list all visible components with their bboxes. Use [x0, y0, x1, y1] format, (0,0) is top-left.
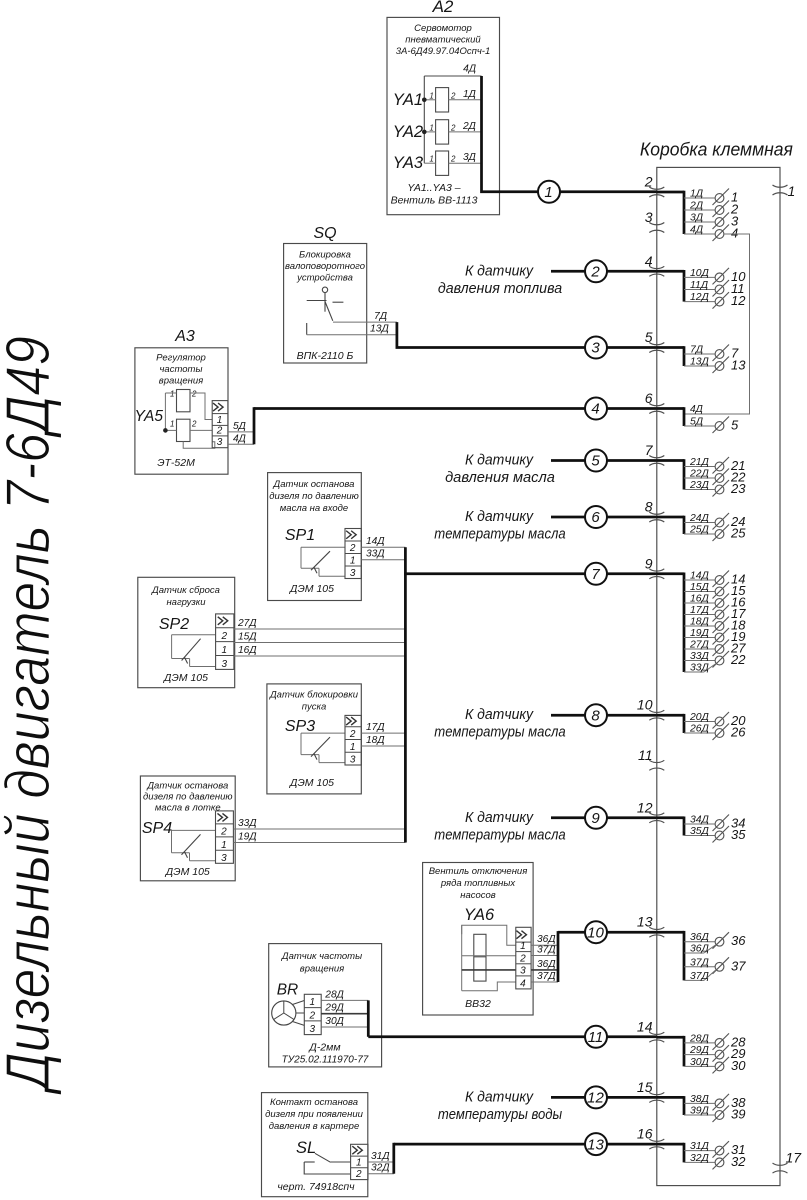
- svg-text:16Д: 16Д: [690, 594, 710, 605]
- wire: cable 3 trunk at gland 5: [657, 346, 684, 366]
- svg-text:пуска: пуска: [302, 702, 327, 713]
- svg-text:Датчик частоты: Датчик частоты: [281, 951, 362, 962]
- svg-text:1: 1: [221, 840, 227, 851]
- wire 27Д from SP2: [234, 618, 406, 629]
- junction at YA2: [422, 130, 427, 135]
- svg-text:37Д: 37Д: [690, 957, 710, 968]
- connector X-SL: [351, 1144, 368, 1180]
- svg-text:1: 1: [429, 91, 433, 100]
- svg-text:К датчику: К датчику: [465, 1088, 534, 1105]
- block SP1 designator: [285, 527, 315, 544]
- cable gland 10: [637, 697, 664, 721]
- terminal box outline: [657, 167, 780, 1185]
- connector X-SP4: [216, 811, 234, 864]
- svg-text:12Д: 12Д: [690, 292, 710, 303]
- svg-text:3: 3: [221, 659, 227, 670]
- svg-text:1: 1: [309, 997, 315, 1008]
- block BR type: [282, 1042, 369, 1066]
- svg-text:28Д: 28Д: [324, 989, 344, 1000]
- connector X-A3: [212, 401, 228, 449]
- svg-text:SP2: SP2: [159, 616, 189, 633]
- block SQ description: [285, 250, 365, 284]
- node 4: [585, 398, 607, 420]
- svg-text:2: 2: [191, 420, 197, 429]
- svg-text:температуры масла: температуры масла: [434, 526, 565, 543]
- block YA6 type: [465, 998, 491, 1010]
- svg-text:SP1: SP1: [285, 527, 315, 544]
- wire 24Д to terminal 24: [684, 513, 745, 530]
- svg-text:2: 2: [355, 1169, 362, 1180]
- wire 14Д from SP1: [361, 536, 405, 547]
- block SP4 description: [143, 781, 233, 814]
- wire: cable 1 trunk at gland 2: [657, 191, 684, 234]
- wire 22Д to terminal 22: [684, 469, 746, 486]
- cable gland 2: [644, 174, 665, 198]
- svg-text:32: 32: [731, 1154, 746, 1169]
- svg-text:ВВ32: ВВ32: [465, 998, 491, 1010]
- terminal box label: Коробка клеммная: [640, 140, 793, 160]
- svg-text:Вентиль ВВ-1113: Вентиль ВВ-1113: [391, 195, 478, 207]
- svg-text:36: 36: [731, 933, 746, 948]
- svg-text:18Д: 18Д: [690, 617, 710, 628]
- svg-text:13Д: 13Д: [370, 324, 390, 335]
- coil YA5a: [165, 390, 212, 420]
- svg-text:3: 3: [645, 209, 653, 225]
- svg-text:32Д: 32Д: [371, 1163, 390, 1174]
- svg-text:36Д: 36Д: [690, 932, 710, 943]
- node 10: [585, 921, 607, 943]
- svg-text:температуры масла: температуры масла: [434, 724, 565, 741]
- svg-text:25Д: 25Д: [689, 525, 710, 536]
- label YA5: [135, 408, 164, 425]
- svg-text:Вентиль отключения: Вентиль отключения: [429, 866, 528, 877]
- wire 32Д to terminal 32: [684, 1153, 746, 1170]
- svg-text:24Д: 24Д: [689, 513, 710, 524]
- svg-text:4Д: 4Д: [690, 404, 703, 415]
- cable gland 17: [773, 1150, 803, 1174]
- svg-text:15Д: 15Д: [238, 632, 257, 643]
- svg-text:давления масла: давления масла: [445, 469, 555, 486]
- svg-text:ДЭМ 105: ДЭМ 105: [163, 672, 208, 684]
- valve coil YA6 body: [474, 934, 486, 981]
- junction at YA5: [163, 428, 168, 433]
- wire 19Д to terminal 19: [684, 628, 745, 645]
- wire 13Д from SQ: [307, 324, 397, 335]
- coil YA5b: [165, 419, 212, 441]
- limit switch SQ symbol: [307, 287, 344, 335]
- svg-text:2: 2: [308, 1010, 315, 1021]
- label BR: [277, 982, 299, 999]
- svg-text:1: 1: [520, 941, 526, 952]
- svg-text:К датчику: К датчику: [465, 809, 534, 826]
- block BR description: [281, 951, 362, 975]
- svg-text:YA3: YA3: [393, 154, 424, 172]
- svg-text:37Д: 37Д: [690, 971, 710, 982]
- svg-text:YA1..YA3 –: YA1..YA3 –: [407, 182, 460, 194]
- wire 33Д from SP1: [361, 549, 405, 560]
- block SQ type: [297, 350, 354, 362]
- label YA6: [464, 906, 495, 924]
- wire: cable 11 trunk at gland 14: [657, 1036, 684, 1067]
- svg-text:ТУ25.02.111970-77: ТУ25.02.111970-77: [282, 1055, 369, 1066]
- cable gland 15: [637, 1079, 664, 1103]
- wire 37Д from YA6 pin2: [531, 945, 558, 956]
- cable gland 14: [637, 1019, 664, 1043]
- pressure switch SP3 symbol: [301, 733, 345, 763]
- node 12: wire К датчику температуры воды: [438, 1086, 657, 1123]
- wire: cable 8 trunk at gland 10: [657, 714, 684, 733]
- svg-text:3: 3: [309, 1024, 315, 1035]
- svg-text:5Д: 5Д: [233, 421, 246, 432]
- svg-text:22: 22: [730, 652, 746, 667]
- wire 23Д to terminal 23: [684, 480, 746, 497]
- svg-text:2: 2: [590, 264, 600, 281]
- svg-text:дизеля по давлению: дизеля по давлению: [269, 491, 359, 502]
- svg-text:дизеля по давлению: дизеля по давлению: [143, 792, 233, 803]
- node 6: wire К датчику температуры масла: [434, 506, 657, 543]
- wire 33Д (second) diagonal to terminal 22: [684, 663, 716, 674]
- svg-text:3А-6Д49.97.04Оспч-1: 3А-6Д49.97.04Оспч-1: [396, 46, 490, 57]
- block SP3 type: [289, 777, 334, 789]
- svg-text:3Д: 3Д: [463, 152, 476, 163]
- svg-text:23Д: 23Д: [689, 480, 710, 491]
- svg-text:2Д: 2Д: [689, 201, 704, 212]
- wire 29Д from BR: [321, 1003, 368, 1014]
- svg-text:2: 2: [644, 174, 653, 190]
- svg-text:13: 13: [637, 914, 653, 930]
- svg-text:33Д: 33Д: [690, 663, 710, 674]
- cable gland 12: [637, 799, 664, 823]
- svg-text:14Д: 14Д: [366, 536, 385, 547]
- svg-text:14: 14: [637, 1019, 653, 1035]
- wire: YA6 to gland 13 trunk: [558, 931, 657, 982]
- connector X-BR: [304, 994, 321, 1035]
- svg-text:33Д: 33Д: [238, 818, 257, 829]
- wire 16Д to terminal 16: [684, 594, 746, 611]
- svg-text:17: 17: [786, 1150, 803, 1166]
- block SP3 outline: [267, 684, 361, 794]
- svg-text:насосов: насосов: [460, 890, 496, 901]
- wire 36Д to terminal 36: [684, 932, 746, 949]
- wire 5Д from A3: [228, 421, 254, 432]
- wire 15Д from SP2: [234, 632, 406, 643]
- svg-text:Дизельный двигатель 7-6Д49: Дизельный двигатель 7-6Д49: [0, 336, 63, 1095]
- wire: A3 to gland 6 trunk: [254, 407, 657, 444]
- svg-text:13: 13: [731, 358, 746, 373]
- svg-text:ЭТ-52М: ЭТ-52М: [157, 457, 195, 469]
- svg-text:А2: А2: [432, 0, 454, 16]
- svg-text:SP3: SP3: [285, 718, 315, 735]
- svg-text:20Д: 20Д: [689, 712, 710, 723]
- svg-text:давления топлива: давления топлива: [438, 280, 562, 297]
- wire 20Д to terminal 20: [684, 712, 746, 729]
- svg-text:Сервомотор: Сервомотор: [414, 23, 472, 34]
- svg-text:12: 12: [587, 1090, 604, 1107]
- wire: SQ to gland 5 trunk: [397, 322, 657, 347]
- wire 37Д (second) diagonal to terminal 37: [684, 970, 716, 982]
- svg-text:33Д: 33Д: [690, 651, 710, 662]
- svg-text:16: 16: [637, 1126, 653, 1142]
- svg-text:1Д: 1Д: [690, 189, 704, 200]
- svg-text:YA2: YA2: [393, 123, 423, 141]
- wire: YA5b to pin 3: [183, 442, 215, 449]
- wire 34Д to terminal 34: [684, 815, 745, 832]
- wire 4Д label (A2): [463, 64, 476, 75]
- block SP4 designator: [142, 820, 172, 837]
- wire: cable 4 trunk at gland 6: [657, 407, 684, 426]
- svg-text:1: 1: [429, 155, 433, 164]
- svg-text:16Д: 16Д: [238, 645, 257, 656]
- wire 21Д to terminal 21: [684, 457, 745, 474]
- svg-text:А3: А3: [174, 328, 195, 345]
- svg-text:4: 4: [731, 226, 738, 241]
- svg-text:2Д: 2Д: [462, 121, 476, 132]
- wire 28Д to terminal 28: [684, 1033, 746, 1050]
- wire: YA6 bottom bracket: [462, 982, 516, 991]
- svg-text:Датчик сброса: Датчик сброса: [151, 585, 220, 596]
- svg-text:температуры воды: температуры воды: [438, 1106, 562, 1123]
- svg-text:3: 3: [221, 853, 227, 864]
- svg-text:Датчик останова: Датчик останова: [273, 479, 355, 490]
- block SP1 description: [269, 479, 359, 514]
- wire 39Д to terminal 39: [684, 1106, 745, 1123]
- wire 36Д from YA6 pin1: [531, 934, 558, 945]
- connector X-SP3: [345, 715, 361, 765]
- svg-text:4Д: 4Д: [690, 225, 704, 236]
- svg-text:10: 10: [587, 924, 604, 941]
- wire: cable 6 trunk at gland 8: [657, 516, 684, 534]
- svg-text:устройства: устройства: [296, 273, 353, 284]
- wire: sensors collector trunk: [404, 547, 407, 842]
- wire 38Д to terminal 38: [684, 1094, 746, 1111]
- svg-text:25: 25: [730, 526, 746, 541]
- svg-text:36Д: 36Д: [537, 959, 556, 970]
- svg-text:2: 2: [349, 729, 356, 740]
- svg-text:вращения: вращения: [159, 376, 203, 387]
- svg-text:22Д: 22Д: [689, 469, 710, 480]
- block SP4 type: [165, 866, 210, 878]
- svg-text:2: 2: [220, 826, 227, 837]
- block A2 description: [396, 23, 490, 57]
- wire 7Д from SQ: [333, 311, 397, 322]
- block SP1 type: [289, 583, 334, 595]
- svg-text:2: 2: [191, 390, 197, 399]
- node 3: [585, 337, 607, 359]
- svg-text:4Д: 4Д: [463, 64, 476, 75]
- wire 1Д to terminal 1: [684, 189, 738, 206]
- wire 11Д to terminal 11: [684, 280, 745, 297]
- wire 25Д to terminal 25: [684, 525, 746, 542]
- block SP1 outline: [268, 473, 362, 601]
- svg-text:1Д: 1Д: [463, 89, 476, 100]
- wire 10Д to terminal 10: [684, 268, 746, 285]
- svg-text:34Д: 34Д: [690, 815, 710, 826]
- wire: cable 2 trunk at gland 4: [657, 270, 684, 302]
- wire 31Д from SL: [368, 1151, 394, 1162]
- svg-text:38Д: 38Д: [690, 1094, 710, 1105]
- svg-text:12: 12: [731, 293, 746, 308]
- cable gland 5: [645, 329, 665, 353]
- wire 18Д from SP3: [361, 735, 405, 746]
- block A2 outline: [387, 17, 500, 214]
- svg-text:3: 3: [520, 965, 526, 976]
- svg-text:26: 26: [730, 725, 746, 740]
- wire: YA6 top bracket: [462, 925, 516, 990]
- svg-text:15Д: 15Д: [690, 582, 710, 593]
- wire: cable 10 trunk at gland 13: [657, 931, 684, 981]
- svg-text:частоты: частоты: [160, 364, 203, 375]
- svg-text:Регулятор: Регулятор: [156, 353, 206, 364]
- svg-text:6: 6: [645, 390, 653, 406]
- svg-text:YA6: YA6: [464, 906, 495, 924]
- svg-text:1: 1: [217, 415, 223, 426]
- wire 32Д from SL: [368, 1163, 394, 1174]
- svg-text:7Д: 7Д: [690, 345, 704, 356]
- wire 37Д to terminal 37: [684, 957, 746, 974]
- svg-text:30: 30: [731, 1058, 746, 1073]
- svg-text:37Д: 37Д: [537, 945, 556, 956]
- svg-text:вращения: вращения: [300, 964, 344, 975]
- connector X-SP1: [345, 529, 361, 580]
- wire: cable 5 trunk at gland 7: [657, 459, 684, 489]
- svg-text:1: 1: [221, 645, 227, 656]
- valve coil YA3: [393, 151, 482, 175]
- svg-text:1: 1: [350, 742, 356, 753]
- svg-text:нагрузки: нагрузки: [166, 597, 206, 608]
- svg-text:35Д: 35Д: [690, 826, 710, 837]
- svg-text:7: 7: [645, 442, 654, 458]
- svg-text:2: 2: [519, 953, 526, 964]
- pressure switch SP1 symbol: [301, 547, 345, 576]
- wire 7Д to terminal 7: [684, 345, 739, 362]
- svg-text:27Д: 27Д: [689, 640, 710, 651]
- svg-text:19Д: 19Д: [690, 628, 710, 639]
- node 2: wire К датчику давления топлива: [438, 260, 657, 297]
- cable gland 11: [638, 747, 664, 771]
- svg-text:3: 3: [350, 755, 356, 766]
- svg-text:5Д: 5Д: [690, 417, 704, 428]
- wire: YA6 tap to pin 3: [462, 969, 516, 971]
- wire 13Д to terminal 13: [684, 357, 746, 374]
- svg-text:валоповоротного: валоповоротного: [285, 261, 365, 272]
- wire 2Д to terminal 2: [684, 201, 739, 218]
- svg-text:К датчику: К датчику: [465, 508, 534, 525]
- wire 18Д to terminal 18: [684, 617, 746, 634]
- label SL: [296, 1139, 316, 1157]
- block A3 type: [157, 457, 195, 469]
- svg-text:31Д: 31Д: [690, 1141, 710, 1152]
- svg-text:1: 1: [356, 1157, 362, 1168]
- block A2 note: [391, 182, 478, 207]
- node 8: wire К датчику температуры масла: [434, 704, 657, 741]
- svg-text:Контакт останова: Контакт останова: [270, 1097, 358, 1108]
- cable gland 8: [645, 499, 665, 523]
- svg-text:YA5: YA5: [135, 408, 164, 425]
- svg-text:К датчику: К датчику: [465, 262, 534, 279]
- speed sensor BR symbol: [272, 1001, 305, 1026]
- svg-text:29Д: 29Д: [689, 1045, 710, 1056]
- cable gland 6: [645, 390, 665, 414]
- block SP2 outline: [138, 577, 235, 687]
- wire: A2 to gland 2 (4Д trunk): [482, 76, 657, 192]
- svg-text:7: 7: [591, 566, 600, 583]
- wire: cable 13 trunk at gland 16: [657, 1143, 684, 1163]
- block A2 designator: [432, 0, 454, 16]
- svg-text:Д-2мм: Д-2мм: [308, 1042, 340, 1054]
- svg-text:ДЭМ 105: ДЭМ 105: [289, 583, 334, 595]
- svg-text:18Д: 18Д: [366, 735, 385, 746]
- svg-text:К датчику: К датчику: [465, 706, 534, 723]
- svg-text:30Д: 30Д: [325, 1016, 344, 1027]
- svg-text:1: 1: [350, 556, 356, 567]
- svg-text:27Д: 27Д: [237, 618, 257, 629]
- svg-text:36Д: 36Д: [690, 944, 710, 955]
- svg-text:30Д: 30Д: [690, 1057, 710, 1068]
- wire 17Д to terminal 17: [684, 605, 746, 622]
- block SL outline: [262, 1093, 368, 1197]
- wire 36Д from YA6 pin3: [531, 959, 558, 970]
- svg-text:19Д: 19Д: [238, 832, 257, 843]
- svg-text:ряда топливных: ряда топливных: [440, 878, 517, 889]
- svg-text:SL: SL: [296, 1139, 316, 1157]
- wire link terminal 4 to 4Д of cable 6: [684, 234, 750, 414]
- svg-text:дизеля при появлении: дизеля при появлении: [265, 1109, 363, 1120]
- pressure switch SP2 symbol: [172, 635, 216, 667]
- wire 14Д to terminal 14: [684, 571, 745, 588]
- block SQ designator: [313, 225, 336, 242]
- svg-text:17Д: 17Д: [690, 605, 710, 616]
- svg-text:8: 8: [645, 499, 653, 515]
- wire: BR to gland 14 trunk: [368, 1000, 657, 1036]
- wire 29Д to terminal 29: [684, 1045, 745, 1062]
- block SQ outline: [284, 244, 367, 364]
- wire 27Д to terminal 27: [684, 640, 746, 657]
- wire 4Д to terminal 4: [684, 225, 738, 242]
- svg-text:4: 4: [520, 978, 526, 989]
- svg-text:4: 4: [591, 401, 599, 418]
- valve coil YA2: [393, 120, 482, 144]
- wire 12Д to terminal 12: [684, 292, 746, 309]
- wire: A2 internal bus: [424, 76, 481, 163]
- wire 5Д to terminal 5: [684, 417, 739, 434]
- wire: YA5 left bus: [164, 393, 166, 430]
- wire 37Д from YA6 pin4: [531, 971, 558, 982]
- svg-text:3: 3: [350, 568, 356, 579]
- svg-text:1: 1: [170, 420, 174, 429]
- svg-text:2: 2: [450, 91, 456, 100]
- svg-text:8: 8: [591, 707, 600, 724]
- wire 28Д from BR: [321, 989, 368, 1000]
- wire 33Д to terminal 22: [684, 651, 746, 668]
- block YA6 description: [429, 866, 528, 901]
- svg-text:5: 5: [731, 418, 739, 433]
- cable gland 9: [645, 555, 665, 579]
- svg-text:13Д: 13Д: [690, 357, 710, 368]
- svg-text:5: 5: [645, 329, 653, 345]
- junction at YA1: [422, 98, 427, 103]
- block SP3 designator: [285, 718, 315, 735]
- wire 30Д to terminal 30: [684, 1057, 746, 1074]
- block SL description: [265, 1097, 363, 1132]
- wire 36Д (second) diagonal to terminal 36: [684, 944, 716, 955]
- svg-text:29Д: 29Д: [324, 1003, 344, 1014]
- wire 17Д from SP3: [361, 722, 405, 733]
- wire 4Д from A3: [228, 433, 254, 444]
- svg-text:масла на входе: масла на входе: [280, 503, 348, 514]
- wire: SL to gland 16 trunk: [394, 1143, 657, 1174]
- wire 31Д to terminal 31: [684, 1141, 745, 1158]
- svg-text:26Д: 26Д: [689, 724, 710, 735]
